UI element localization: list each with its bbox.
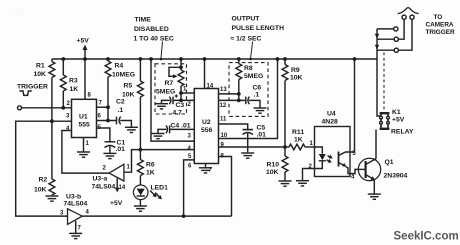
svg-text:7: 7 xyxy=(99,101,103,107)
wire U2 pin4 to rail xyxy=(149,57,194,141)
svg-text:R4: R4 xyxy=(115,63,124,70)
svg-text:13: 13 xyxy=(220,87,227,93)
dashed box OUTPUT PULSE LENGTH xyxy=(229,16,284,117)
svg-text:K1: K1 xyxy=(392,109,401,116)
svg-text:74LS04: 74LS04 xyxy=(92,184,116,191)
svg-text:CAMERA: CAMERA xyxy=(426,22,454,29)
svg-text:TRIGGER: TRIGGER xyxy=(17,84,48,91)
svg-text:1 TO 40 SEC: 1 TO 40 SEC xyxy=(134,36,174,43)
capacitor C1 on U1 pin5 xyxy=(97,128,126,153)
svg-text:+5V: +5V xyxy=(392,117,405,124)
node +5V supply arrow xyxy=(77,38,90,100)
svg-text:10K: 10K xyxy=(122,92,135,99)
wire U2 pin9 to R9 R10 R11 node xyxy=(219,146,286,148)
svg-text:5MEG: 5MEG xyxy=(156,89,175,96)
capacitor C5 on U2 pin11 xyxy=(219,124,267,152)
svg-text:+5V: +5V xyxy=(77,38,90,45)
svg-text:14: 14 xyxy=(119,185,126,191)
svg-text:5MEG: 5MEG xyxy=(244,73,263,80)
wire U1 pin4 to U3-a output xyxy=(62,131,109,174)
svg-text:3: 3 xyxy=(188,134,192,140)
svg-text:U1: U1 xyxy=(79,114,88,121)
svg-text:2: 2 xyxy=(67,101,71,107)
ground under U2 pin7 xyxy=(199,168,212,173)
svg-text:74LS04: 74LS04 xyxy=(64,201,88,208)
watermark SeekIC.com xyxy=(394,231,459,243)
LED1 xyxy=(133,185,168,206)
potentiometer R7 xyxy=(156,57,184,100)
svg-text:U2: U2 xyxy=(202,119,211,126)
transistor Q1 2N3904 xyxy=(358,130,407,194)
svg-text:+5V: +5V xyxy=(110,200,123,207)
wire U2 pin1 to R7 xyxy=(179,91,194,95)
svg-text:R5: R5 xyxy=(124,83,133,90)
wire U4 pin4 to Q1 base xyxy=(350,169,358,173)
svg-text:C6: C6 xyxy=(253,85,262,92)
svg-text:R9: R9 xyxy=(291,67,300,74)
svg-text:555: 555 xyxy=(79,122,91,129)
svg-text:C5: C5 xyxy=(257,125,266,132)
svg-text:R2: R2 xyxy=(39,177,48,184)
svg-text:R10: R10 xyxy=(267,162,280,169)
relay contacts xyxy=(375,8,419,59)
op TRIGGER input terminal xyxy=(17,84,72,110)
svg-text:U3-a: U3-a xyxy=(93,176,108,183)
svg-text:8: 8 xyxy=(88,93,92,99)
resistor R6 xyxy=(138,148,155,185)
inverter U3-a xyxy=(92,164,131,207)
capacitor C3 on U2 pin2 xyxy=(162,94,195,116)
svg-text:4: 4 xyxy=(351,175,355,181)
svg-text:DISABLED: DISABLED xyxy=(134,26,169,33)
svg-text:14: 14 xyxy=(207,84,214,90)
svg-text:OUTPUT: OUTPUT xyxy=(232,16,261,23)
resistor R8 xyxy=(236,57,263,100)
svg-text:1: 1 xyxy=(310,141,314,147)
svg-text:4.7: 4.7 xyxy=(173,110,183,117)
svg-text:R11: R11 xyxy=(292,129,304,136)
ground under U4 pin2 xyxy=(296,181,309,186)
ground under LED1 xyxy=(134,206,147,211)
wire U2 pin10 to rail xyxy=(219,57,280,138)
svg-text:R3: R3 xyxy=(69,78,78,85)
wire U2 pin13 to R8 xyxy=(219,92,241,96)
capacitor C2 on U1 pin6 xyxy=(97,99,132,127)
wire U2 pin6 to bottom rail xyxy=(182,160,195,218)
resistor R10 xyxy=(266,145,288,180)
svg-text:7: 7 xyxy=(78,226,82,232)
svg-text:R8: R8 xyxy=(244,65,253,72)
svg-text:TRIGGER: TRIGGER xyxy=(426,29,455,36)
svg-text:R6: R6 xyxy=(146,162,155,169)
svg-text:1K: 1K xyxy=(70,86,79,93)
svg-text:PULSE LENGTH: PULSE LENGTH xyxy=(232,25,285,32)
svg-text:1K: 1K xyxy=(294,137,303,144)
svg-text:C4 .01: C4 .01 xyxy=(171,123,191,130)
svg-text:556: 556 xyxy=(201,127,213,134)
resistor R2 xyxy=(34,119,55,195)
wire +5V top rail xyxy=(52,58,377,60)
svg-text:≈ 1/2 SEC: ≈ 1/2 SEC xyxy=(231,36,262,43)
ground under C3 xyxy=(155,104,168,109)
svg-text:.01: .01 xyxy=(116,146,126,153)
svg-text:1: 1 xyxy=(86,141,90,147)
wire U2 pin8 to bottom rail xyxy=(219,157,232,217)
svg-text:1: 1 xyxy=(127,165,131,171)
svg-text:10K: 10K xyxy=(290,75,303,82)
svg-text:.1: .1 xyxy=(254,92,260,99)
svg-text:4: 4 xyxy=(86,210,90,216)
svg-text:12: 12 xyxy=(220,103,227,109)
wire U2 pin5 to U3-a input xyxy=(124,150,194,173)
wire U4 pin2 to ground xyxy=(303,169,315,181)
svg-text:10K: 10K xyxy=(34,187,47,194)
capacitor C4 on U2 pin3 xyxy=(158,123,194,134)
ground under C1 xyxy=(103,153,116,158)
resistor R5 xyxy=(122,57,143,150)
svg-text:TO: TO xyxy=(434,14,443,21)
svg-text:RELAY: RELAY xyxy=(391,129,414,136)
resistor R9 xyxy=(282,57,302,147)
wire U2 pin7 to ground xyxy=(205,164,207,168)
svg-text:10K: 10K xyxy=(266,169,279,176)
inverter U3-b xyxy=(60,194,90,233)
svg-text:3: 3 xyxy=(66,114,70,120)
ground under U1 pin1 xyxy=(77,152,90,157)
svg-text:11: 11 xyxy=(220,117,227,123)
svg-text:4N28: 4N28 xyxy=(322,119,338,126)
svg-text:Q1: Q1 xyxy=(385,159,394,166)
op-amp U2 556 timer xyxy=(183,84,228,174)
wire U2 pin14 to rail xyxy=(203,57,207,88)
svg-text:U3-b: U3-b xyxy=(66,194,81,201)
svg-text:U4: U4 xyxy=(327,111,336,118)
resistor R4 xyxy=(105,57,135,120)
ground under R10 xyxy=(279,181,292,186)
dashed box TIME DISABLED xyxy=(134,17,187,115)
svg-text:TIME: TIME xyxy=(135,17,152,24)
ground under C5 xyxy=(241,153,254,158)
svg-text:C2: C2 xyxy=(116,99,125,106)
ground under U3-b pin7 xyxy=(69,233,82,238)
scan smudge top left xyxy=(16,8,24,16)
svg-text:R7: R7 xyxy=(165,80,174,87)
wire U4 pin5 to rail xyxy=(350,57,356,152)
dashed mechanical link to relay contacts xyxy=(383,53,385,113)
svg-text:LED1: LED1 xyxy=(151,185,169,192)
svg-text:R1: R1 xyxy=(36,63,45,70)
svg-text:5: 5 xyxy=(188,154,192,160)
capacitor C6 on U2 pin12 xyxy=(219,85,262,108)
node TO CAMERA TRIGGER xyxy=(426,14,455,36)
resistor R11 xyxy=(285,129,315,150)
resistor R3 xyxy=(60,57,78,108)
svg-text:6: 6 xyxy=(98,114,102,120)
svg-text:2: 2 xyxy=(103,166,107,172)
optocoupler U4 4N28 xyxy=(309,111,357,181)
op-amp U1 555 timer xyxy=(66,93,103,148)
svg-text:C3: C3 xyxy=(176,102,185,109)
svg-text:.1: .1 xyxy=(118,107,124,114)
ground under Q1 emitter xyxy=(368,194,381,199)
relay K1 coil xyxy=(377,59,414,136)
wire bottom rail from U3-b output xyxy=(82,215,231,217)
ground under C2 xyxy=(125,127,138,132)
svg-text:1K: 1K xyxy=(146,170,155,177)
svg-text:6: 6 xyxy=(188,164,192,170)
ground under C6 xyxy=(254,108,267,113)
wire U1 pin3 to U3-b input xyxy=(16,121,72,216)
ground under R2 xyxy=(45,196,58,201)
svg-text:10MEG: 10MEG xyxy=(112,72,135,79)
svg-text:.01: .01 xyxy=(257,132,267,139)
svg-text:2: 2 xyxy=(188,102,192,108)
svg-text:SeekIC.com: SeekIC.com xyxy=(394,231,459,243)
ground under C4 xyxy=(152,134,165,139)
svg-text:2N3904: 2N3904 xyxy=(384,173,408,180)
resistor R1 xyxy=(34,59,55,121)
wire U1 pin1 to ground xyxy=(83,138,85,152)
wire U1 pin7 junction xyxy=(97,105,110,109)
svg-text:10K: 10K xyxy=(34,71,47,78)
